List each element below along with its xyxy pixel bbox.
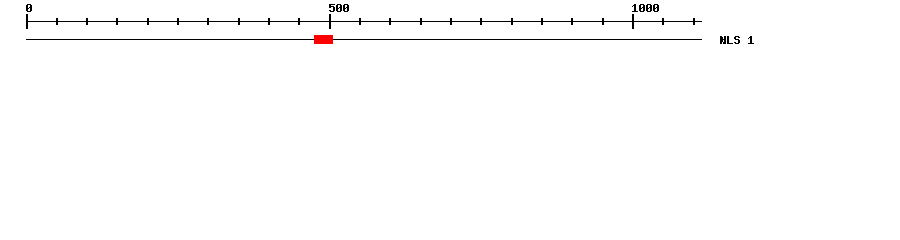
ruler minor tick: [86, 18, 88, 25]
ruler label 0: [26, 4, 32, 12]
ruler minor tick: [602, 18, 604, 25]
ruler minor tick: [511, 18, 513, 25]
ruler minor tick: [177, 18, 179, 25]
ruler minor tick: [268, 18, 270, 25]
feature box NLS 1 (red): [314, 35, 333, 44]
ruler label 500: [329, 4, 349, 12]
ruler minor tick: [693, 18, 695, 25]
ruler minor tick: [389, 18, 391, 25]
ruler major tick 1000: [632, 14, 634, 29]
ruler minor tick: [420, 18, 422, 25]
ruler minor tick: [359, 18, 361, 25]
ruler line: [26, 21, 702, 22]
ruler minor tick: [116, 18, 118, 25]
ruler minor tick: [571, 18, 573, 25]
ruler minor tick: [662, 18, 664, 25]
ruler major tick 500: [329, 14, 331, 29]
ruler label 1000: [632, 4, 659, 12]
ruler minor tick: [238, 18, 240, 25]
ruler minor tick: [450, 18, 452, 25]
feature track line: [26, 39, 702, 40]
ruler minor tick: [298, 18, 300, 25]
ruler minor tick: [480, 18, 482, 25]
ruler major tick 0: [26, 14, 28, 29]
sequence ruler and NLS 1 feature track: [0, 0, 900, 58]
ruler minor tick: [541, 18, 543, 25]
ruler minor tick: [147, 18, 149, 25]
ruler minor tick: [56, 18, 58, 25]
feature label NLS 1: [720, 36, 754, 44]
ruler minor tick: [207, 18, 209, 25]
